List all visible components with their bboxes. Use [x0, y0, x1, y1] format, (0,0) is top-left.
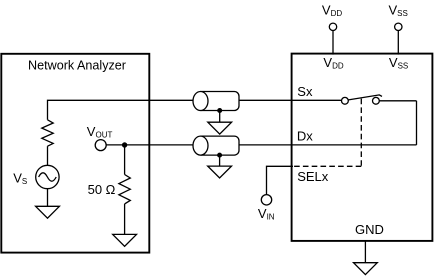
svg-text:VSS: VSS: [389, 55, 408, 71]
wire: coax 1 shield to ground: [219, 111, 221, 123]
junction dot (VOUT node): [122, 142, 127, 147]
svg-text:GND: GND: [355, 222, 384, 237]
ground (below 50 ohm): [113, 234, 137, 246]
svg-text:VIN: VIN: [258, 206, 275, 222]
box U2: analog switch IC: [292, 54, 433, 241]
terminal VOUT: [95, 140, 106, 151]
pin VDD stem: [332, 31, 334, 55]
switch lever: [348, 95, 382, 100]
coax cable 2 end ellipse: [193, 136, 208, 155]
svg-text:Network Analyzer: Network Analyzer: [28, 59, 126, 73]
wire: source VS to ground: [47, 189, 49, 207]
switch throw circle (Dx side): [373, 97, 380, 104]
pin VSS terminal: [395, 23, 402, 30]
coax cable 1 (Sx) body: [201, 92, 240, 111]
svg-text:VOUT: VOUT: [87, 124, 113, 140]
box U1: Network Analyzer: [1, 54, 149, 253]
wire: right vertical down to Dx line: [416, 101, 418, 145]
svg-text:VDD: VDD: [322, 2, 342, 18]
wire: Dx line from vertical to coax 2: [239, 144, 417, 146]
shield dot coax 1: [217, 108, 222, 113]
coax cable 2 (Dx) body: [201, 136, 240, 155]
ground (below coax 2): [208, 166, 232, 178]
pin VSS stem: [397, 31, 399, 55]
wire: resistor RS to source VS: [47, 146, 49, 165]
pin VDD terminal: [329, 23, 336, 30]
terminal VIN: [261, 195, 271, 205]
shield dot coax 2: [217, 153, 222, 158]
wire: VOUT line (Dx line) from terminal to coax 2: [106, 144, 195, 146]
ground (below coax 1): [208, 122, 232, 134]
svg-text:VDD: VDD: [323, 55, 343, 71]
wire: GND stem: [364, 241, 366, 263]
ground (below VS): [36, 206, 60, 218]
svg-text:Dx: Dx: [297, 128, 313, 143]
dashed control line vertical (switch to SELx): [360, 99, 362, 167]
svg-text:SELx: SELx: [297, 169, 329, 184]
ground (below GND pin): [354, 263, 378, 275]
source VS (sine source): [36, 165, 59, 188]
resistor RS (source impedance): [42, 120, 53, 146]
wire: coax 2 shield to ground: [219, 155, 221, 166]
svg-text:VS: VS: [13, 171, 27, 187]
dashed control line horizontal: [293, 165, 361, 167]
wire: SELx to VIN: [267, 166, 294, 194]
wire: coax 1 to switch pole (Sx): [239, 99, 345, 101]
wire: junction down to 50 ohm resistor: [124, 145, 126, 175]
svg-text:VSS: VSS: [389, 2, 408, 18]
resistor 50 ohm: [119, 175, 130, 204]
svg-text:50 Ω: 50 Ω: [88, 182, 116, 197]
switch pole circle (Sx side): [342, 97, 349, 104]
wire: source top / Sx line to coax 1: [48, 100, 196, 120]
wire: switch throw to right vertical: [379, 100, 416, 102]
svg-text:Sx: Sx: [297, 84, 313, 99]
coax cable 1 end ellipse: [193, 92, 208, 111]
wire: 50 ohm resistor to ground: [124, 204, 126, 235]
